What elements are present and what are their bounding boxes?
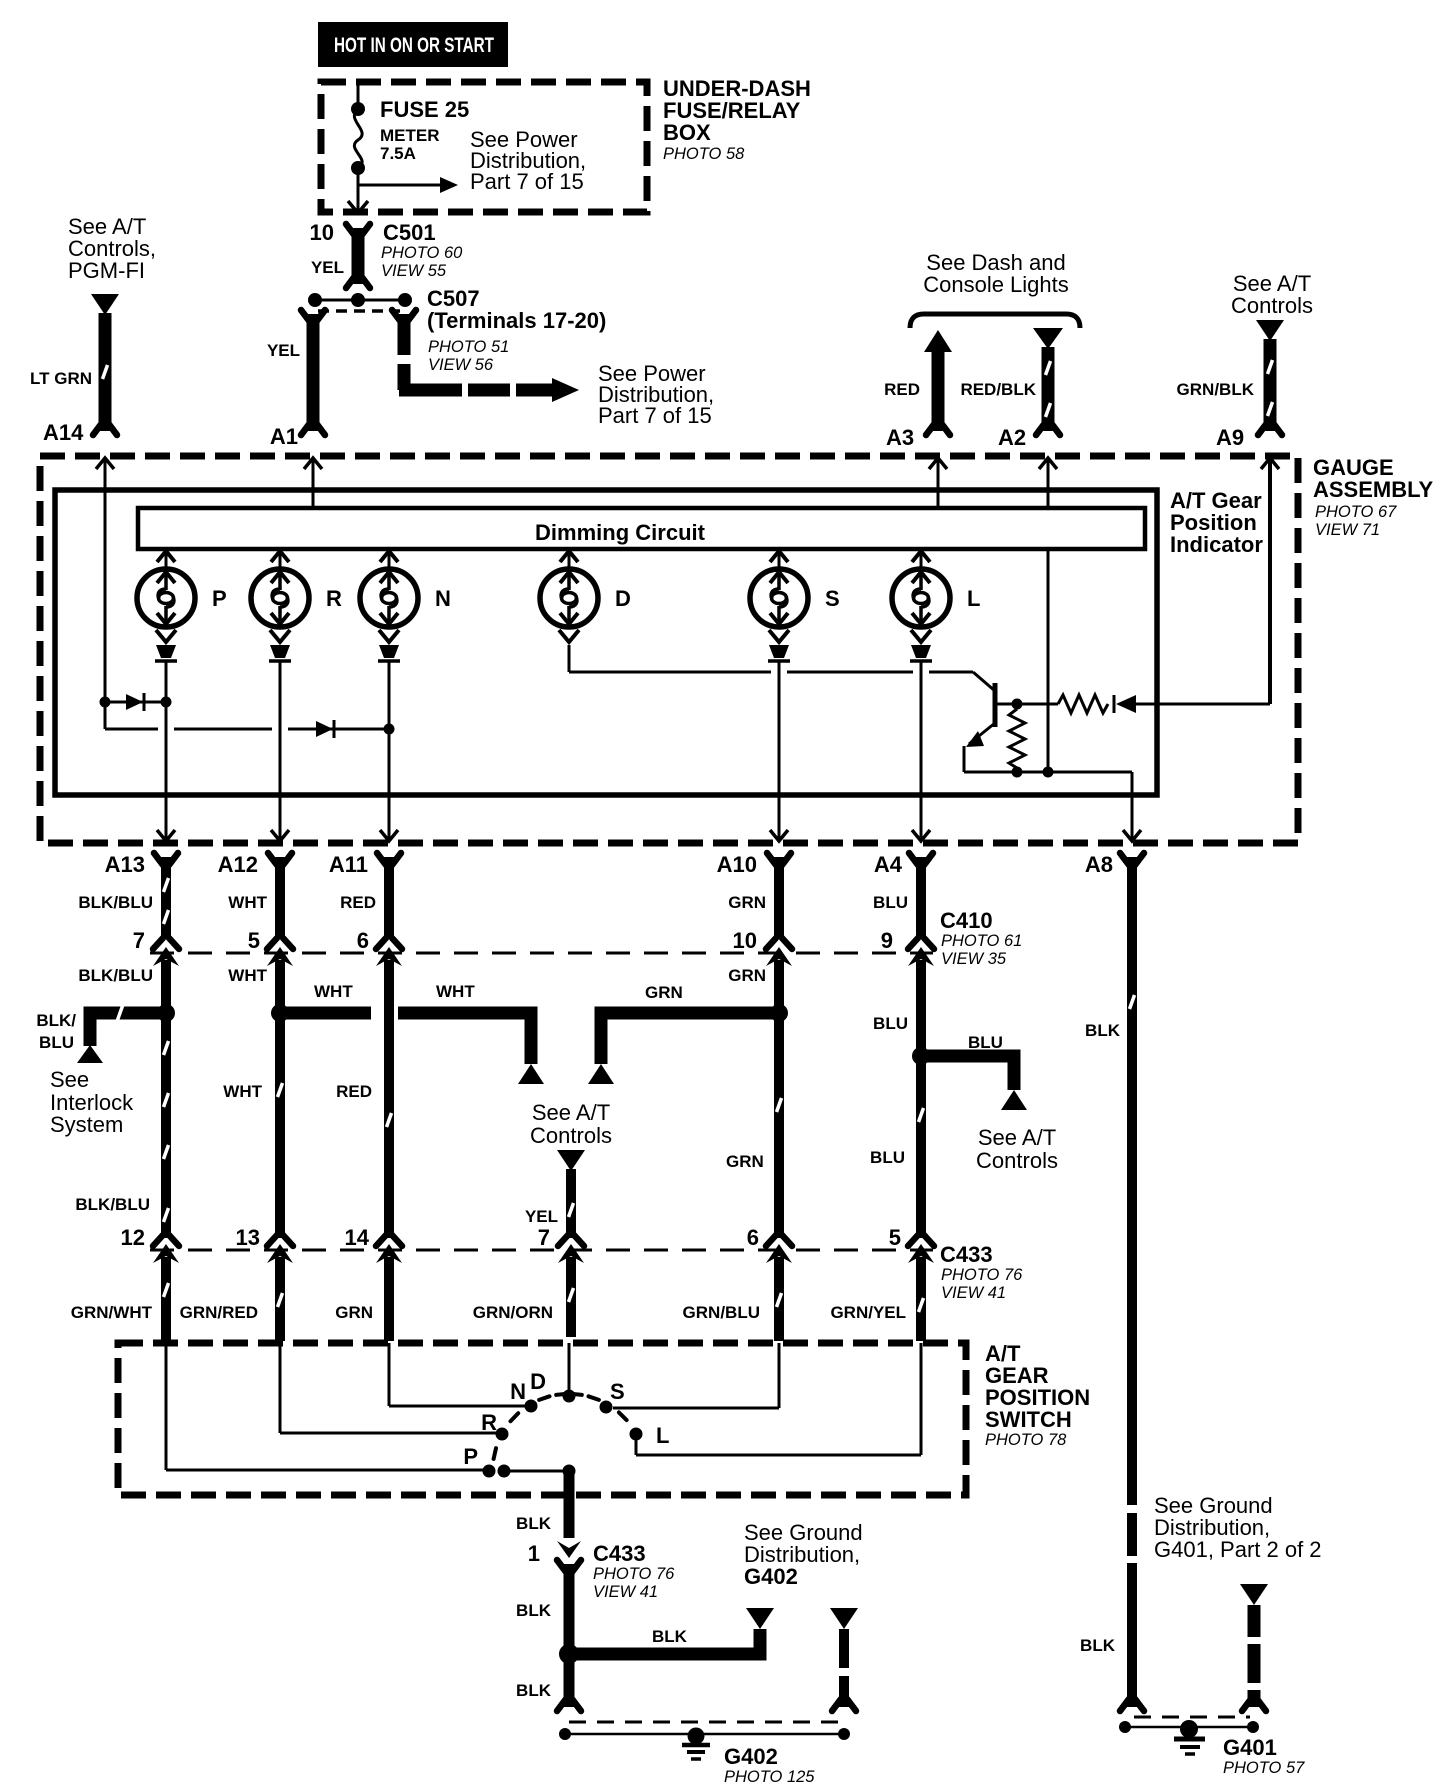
svg-text:FUSE 25: FUSE 25 [380,97,469,122]
diode D1 to lamp P [105,701,166,704]
svg-text:10: 10 [310,220,334,245]
wire: YEL to gauge terminal A1 [301,310,325,322]
svg-text:WHT: WHT [228,893,267,912]
wire: lamp R to terminal A12 [279,661,282,840]
wire: A14 branch to diode D2 [105,728,158,731]
node A9 entry arrow [1261,458,1279,469]
svg-text:BLK: BLK [1080,1636,1116,1655]
svg-text:BLK/BLU: BLK/BLU [78,966,153,985]
svg-text:7: 7 [538,1225,550,1250]
arrow from A/T controls (YEL) [557,1150,585,1171]
svg-text:Indicator: Indicator [1170,532,1263,557]
wire: switch feed N [388,1343,391,1406]
svg-text:D: D [530,1369,546,1394]
node: C507 bus [315,299,405,302]
svg-text:C433: C433 [940,1242,993,1267]
lamp D output arrow [559,630,579,642]
svg-text:BLK: BLK [516,1601,552,1620]
svg-text:1: 1 [528,1541,540,1566]
wire: to G401 ground [1248,1605,1261,1637]
node: bus end right [838,1728,850,1740]
svg-text:VIEW 41: VIEW 41 [941,1284,1006,1302]
svg-text:LT GRN: LT GRN [30,369,92,388]
lamp P output arrow [156,630,176,642]
wire: stub from dimming circuit to lamp N [388,549,391,571]
svg-text:G402: G402 [744,1564,798,1589]
svg-text:A1: A1 [270,424,298,449]
wire: WHT from A12 [275,857,285,937]
svg-text:GRN/BLU: GRN/BLU [683,1303,760,1322]
svg-text:A3: A3 [886,425,914,450]
wire: RED from A11 [384,857,394,937]
svg-text:BLK/BLU: BLK/BLU [75,1195,150,1214]
under-dash fuse/relay box (dashed) [321,82,647,212]
wire: BLU branch to A/T controls [921,1056,1014,1090]
svg-text:GRN/BLK: GRN/BLK [1177,380,1255,399]
svg-text:BLK: BLK [516,1681,552,1700]
wire: BLK switch output [564,1474,575,1538]
svg-text:L: L [656,1423,669,1448]
wire: GRN from A10 [774,857,784,937]
svg-text:WHT: WHT [314,982,353,1001]
terminal A10 [767,853,791,865]
arrow from ground distribution [830,1608,858,1629]
svg-text:See A/T: See A/T [532,1100,610,1125]
terminal A12 [268,853,292,865]
svg-text:PHOTO 67: PHOTO 67 [1315,503,1397,521]
svg-text:G401: G401 [1223,1735,1277,1760]
svg-text:SWITCH: SWITCH [985,1407,1072,1432]
wire: BLU below C410 [916,960,926,1238]
contact S [600,1401,613,1414]
wire: GRN to switch [384,1257,394,1341]
wire: RED to terminal A3 (arrow up) [924,330,952,352]
svg-text:N: N [510,1379,526,1404]
svg-text:RED/BLK: RED/BLK [960,380,1036,399]
svg-text:Controls: Controls [530,1123,612,1148]
wire: base lead [995,703,1058,706]
indicator lamp P [137,569,195,627]
svg-text:10: 10 [733,928,757,953]
svg-text:PHOTO 57: PHOTO 57 [1223,1759,1305,1777]
svg-text:PHOTO 60: PHOTO 60 [381,244,463,262]
svg-text:5: 5 [889,1225,901,1250]
switch wiper [498,1465,511,1478]
connector C501 (pin 10, YEL) [346,224,370,236]
contact D [563,1390,576,1403]
svg-text:PHOTO 78: PHOTO 78 [985,1431,1067,1449]
lamp R output arrow [270,630,290,642]
wire: YEL to C433 [566,1169,576,1238]
svg-text:14: 14 [345,1225,370,1250]
svg-text:12: 12 [121,1225,145,1250]
svg-text:PGM-FI: PGM-FI [68,258,145,283]
svg-text:BLK/BLU: BLK/BLU [78,893,153,912]
svg-text:L: L [967,586,980,611]
svg-text:BLU: BLU [873,893,908,912]
svg-text:BLU: BLU [873,1014,908,1033]
svg-text:VIEW 56: VIEW 56 [428,356,494,374]
node: junction A10 branch [770,1004,788,1022]
svg-text:GRN/RED: GRN/RED [180,1303,258,1322]
a/t gear position switch box (dashed) [118,1343,966,1495]
wire: GRN/YEL to switch [916,1257,926,1341]
wire: switch feed S [778,1343,781,1408]
svg-text:P: P [463,1444,478,1469]
svg-text:GRN: GRN [335,1303,373,1322]
gauge assembly box (dashed) [40,456,1298,843]
svg-text:9: 9 [881,928,893,953]
ground bus G402 (dashed) [569,1721,844,1724]
svg-text:BLK: BLK [1085,1021,1121,1040]
svg-text:ASSEMBLY: ASSEMBLY [1313,477,1434,502]
wire: GRN/BLU to switch [774,1257,784,1341]
svg-text:C501: C501 [383,220,436,245]
svg-text:GRN: GRN [645,983,683,1002]
wire: header to fuse [357,79,360,109]
wire: BLK junction to G402 [564,1658,575,1707]
svg-text:D: D [615,586,631,611]
indicator lamp N [360,569,418,627]
fuse 25 (7.5A METER) [351,102,365,116]
wire: WHT branch to A/T controls [280,1007,371,1020]
connector C410 (dashed separator) [150,952,933,955]
svg-text:BOX: BOX [663,120,711,145]
wire: lamp N to terminal A11 [388,661,391,840]
diode D3 (pointing left) [1113,695,1116,713]
wire: GRN branch to A/T controls [601,1013,779,1064]
wire: BLK to junction [564,1564,575,1650]
svg-text:N: N [435,586,451,611]
connector C433 (dashed separator) [150,1249,933,1252]
svg-text:Part 7 of 15: Part 7 of 15 [598,403,712,428]
svg-text:See: See [50,1067,89,1092]
wire: lamp D to transistor collector [568,645,571,672]
svg-text:System: System [50,1112,123,1137]
svg-text:BLK: BLK [652,1627,688,1646]
wire: C507 to power distribution (dashed arrow) [392,310,416,322]
wire: BLK/BLU branch to interlock system [90,1013,166,1046]
wire: A14 to diodes [104,460,107,729]
node: junction A13 branch [157,1004,175,1022]
wire: switch feed P [165,1343,168,1470]
wire: fuse output [357,168,360,212]
svg-text:A9: A9 [1216,425,1244,450]
wire: BLK from A8 to G401 [1127,857,1137,1505]
connector C507 body (dashed tie) [318,309,400,313]
node A1 entry arrow [304,458,322,469]
indicator lamp D [540,569,598,627]
wire: WHT below C410 [275,960,285,1238]
svg-text:BLU: BLU [39,1033,74,1052]
arrow at A12 exit [271,830,289,841]
svg-text:6: 6 [357,928,369,953]
svg-text:RED: RED [336,1082,372,1101]
node: junction at lamp P [161,697,172,708]
svg-text:GRN: GRN [726,1152,764,1171]
wire: stub from dimming circuit to lamp S [778,549,781,571]
wire: RED/BLK to terminal A2 [1033,328,1063,349]
svg-text:S: S [825,586,840,611]
svg-text:A13: A13 [105,852,145,877]
a/t gear position indicator box (solid) [55,490,1157,795]
terminal A8 [1120,853,1144,865]
node A14 entry arrow [96,458,114,469]
svg-text:Part 7 of 15: Part 7 of 15 [470,169,584,194]
svg-text:BLK: BLK [516,1514,552,1533]
wire: switch feed D [568,1343,571,1396]
contact N [525,1400,538,1413]
bracket over A3/A2 wires [910,314,1080,328]
ground G401 [1180,1720,1198,1738]
wire: stub from dimming circuit to lamp L [920,549,923,571]
svg-text:GRN: GRN [728,893,766,912]
svg-text:HOT IN ON OR START: HOT IN ON OR START [334,34,494,57]
wire: GRN below C410 [774,960,784,1238]
wire: switch feed R [279,1343,282,1433]
indicator lamp L [892,569,950,627]
dimming circuit block [138,508,1145,549]
node: junction at lamp N [384,724,395,735]
svg-text:R: R [326,586,342,611]
svg-text:A8: A8 [1085,852,1113,877]
ground bus G401 (dashed) [1134,1716,1250,1719]
svg-text:RED: RED [884,380,920,399]
wire: BLU from A4 [916,857,926,937]
svg-text:A12: A12 [218,852,258,877]
svg-text:GRN/ORN: GRN/ORN [473,1303,553,1322]
svg-text:S: S [610,1379,625,1404]
arrow from ground distribution (G401) [1240,1584,1268,1605]
node: resistor bottom junction [1012,767,1023,778]
wire: RED below C410 [384,960,394,1238]
svg-text:G401, Part 2 of 2: G401, Part 2 of 2 [1154,1537,1322,1562]
contact P [483,1465,496,1478]
arrow at A10 exit [770,830,788,841]
svg-text:13: 13 [236,1225,260,1250]
node: bus end right (G401) [1247,1721,1259,1733]
svg-text:VIEW 35: VIEW 35 [941,950,1007,968]
svg-text:PHOTO 58: PHOTO 58 [663,145,745,163]
power source header HOT IN ON OR START [318,22,508,67]
contact L [630,1428,643,1441]
wire: BLK branch to G402 distribution [569,1629,760,1654]
wire: BLK/BLU below C410 [161,960,171,1238]
node: bus end left (G401) [1119,1721,1131,1733]
rotary switch arc [494,1394,627,1459]
svg-text:Controls: Controls [976,1148,1058,1173]
svg-text:RED: RED [340,893,376,912]
svg-text:7: 7 [133,928,145,953]
arrow from A/T controls [91,294,119,315]
wire: emitter to A8 [963,746,966,772]
svg-text:PHOTO 61: PHOTO 61 [941,932,1022,950]
node: ground junction [559,1644,579,1664]
wire: to G402 ground [839,1629,849,1668]
svg-text:6: 6 [747,1225,759,1250]
lamp L output arrow [911,630,931,642]
node: bus end left [559,1728,571,1740]
svg-text:GRN/YEL: GRN/YEL [830,1303,906,1322]
node A3 entry arrow [929,458,947,469]
wire: A9 to base network [1268,460,1272,704]
wire: switch feed L [920,1343,923,1455]
svg-text:A11: A11 [329,852,368,877]
wire: lamp S to terminal A10 [778,661,781,840]
svg-text:R: R [481,1410,497,1435]
terminal A11 [377,853,401,865]
svg-text:BLU: BLU [968,1033,1003,1052]
svg-text:METER: METER [380,126,440,145]
svg-text:YEL: YEL [267,341,300,360]
svg-text:BLK/: BLK/ [36,1011,76,1030]
wire: GRN/WHT to switch [161,1257,171,1341]
svg-text:WHT: WHT [228,966,267,985]
wire: BLK/BLU from A13 [161,857,171,937]
wire: GRN/RED to switch [275,1257,285,1341]
wire: LT GRN to terminal A14 [99,313,112,431]
wire: lamp L to terminal A4 [920,661,923,840]
svg-text:PHOTO 76: PHOTO 76 [593,1565,675,1583]
svg-text:WHT: WHT [223,1082,262,1101]
svg-text:C410: C410 [940,908,993,933]
node: wiper pivot [563,1465,576,1478]
svg-text:C433: C433 [593,1541,646,1566]
arrow at A4 exit [912,830,930,841]
svg-text:GRN/WHT: GRN/WHT [71,1303,153,1322]
resistor R2 (base-emitter) [1009,709,1025,768]
node A2 entry arrow [1039,458,1057,469]
svg-text:YEL: YEL [525,1207,558,1226]
node: junction A4 branch [912,1047,930,1065]
lamp N output arrow [379,630,399,642]
svg-text:PHOTO 51: PHOTO 51 [428,338,509,356]
svg-text:A14: A14 [43,420,84,445]
svg-text:A2: A2 [998,425,1026,450]
svg-text:Dimming Circuit: Dimming Circuit [535,520,706,545]
arrow at A11 exit [380,830,398,841]
svg-text:A10: A10 [717,852,757,877]
svg-text:5: 5 [248,928,260,953]
indicator lamp S [750,569,808,627]
svg-text:VIEW 41: VIEW 41 [593,1583,658,1601]
wire: diode to A9 [1136,703,1270,706]
svg-text:YEL: YEL [311,258,344,277]
wire: stub from dimming circuit to lamp D [568,549,571,571]
svg-text:VIEW 55: VIEW 55 [381,262,447,280]
svg-text:A4: A4 [874,852,903,877]
wire: dimming circuit to emitter junction [1047,549,1050,772]
svg-text:GRN: GRN [728,966,766,985]
wire: stub from dimming circuit to lamp R [279,549,282,571]
svg-text:Console Lights: Console Lights [923,272,1069,297]
terminal A13 [154,853,178,865]
arrow to power distribution (in fuse box) [358,184,440,187]
arrow at A13 exit [157,830,175,841]
svg-text:7.5A: 7.5A [380,144,416,163]
svg-text:See A/T: See A/T [978,1125,1056,1150]
svg-text:(Terminals 17-20): (Terminals 17-20) [427,308,606,333]
arrow from A/T controls (A9) [1256,320,1284,341]
contact R [496,1428,509,1441]
wire: GRN/ORN to switch [566,1257,576,1337]
ground G402 [688,1728,705,1745]
node: emitter junction A2 [1043,767,1054,778]
wire: GRN/BLK to terminal A9 [1264,339,1277,431]
node: base junction [1012,699,1023,710]
svg-text:PHOTO 76: PHOTO 76 [941,1266,1023,1284]
indicator lamp R [251,569,309,627]
wire: stub from dimming circuit to lamp P [165,549,168,571]
diode D2 to lamp N [316,721,333,737]
arrow at A8 exit [1123,830,1141,841]
svg-text:PHOTO 125: PHOTO 125 [724,1768,815,1786]
wire: lamp P to terminal A13 [165,661,168,840]
node: junction A12 branch [271,1004,289,1022]
transistor Q1 (NPN) [993,683,998,727]
svg-text:P: P [212,586,227,611]
svg-text:Controls: Controls [1231,293,1313,318]
node: junction A14/diode1 [100,697,111,708]
svg-text:WHT: WHT [436,982,475,1001]
arrow into C501 [348,201,368,213]
lamp S output arrow [769,630,789,642]
svg-text:VIEW 71: VIEW 71 [1315,521,1380,539]
svg-text:BLU: BLU [870,1148,905,1167]
resistor R1 (base series) [1058,695,1108,713]
svg-text:G402: G402 [724,1744,778,1769]
terminal A4 [909,853,933,865]
